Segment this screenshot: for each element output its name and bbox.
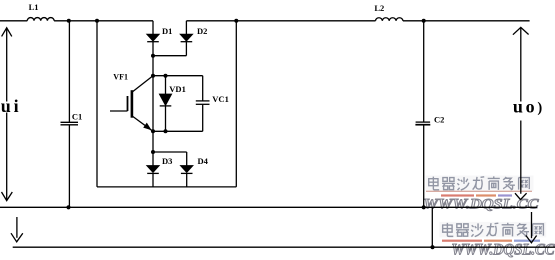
node C2 top [422, 19, 426, 23]
svg-text:C1: C1 [72, 111, 82, 121]
wire bridge box bottom [97, 186, 236, 188]
svg-text:VC1: VC1 [212, 94, 229, 104]
node C1 bottom [66, 205, 70, 209]
wire rail1-rail2 connector [431, 207, 433, 247]
svg-text:C2: C2 [434, 115, 444, 125]
diode D1 [147, 34, 159, 41]
wire L1 to D1 [54, 20, 153, 22]
wire D1-D2 junction link [153, 55, 186, 57]
inductor L1 [27, 18, 54, 21]
wire VD1/VC1 top link [153, 75, 203, 77]
inductor L2 [376, 18, 403, 21]
diode D4 [181, 152, 193, 187]
svg-text:VD1: VD1 [169, 84, 186, 94]
watermark 2 chinese row [439, 222, 546, 238]
node box-left top [95, 19, 99, 23]
diode D3 [147, 166, 159, 187]
svg-text:VF1: VF1 [113, 72, 128, 81]
watermark 1 chinese row [426, 176, 534, 192]
node box-right top [234, 19, 238, 23]
wire D3-D4 top link [153, 151, 187, 153]
wire VD1/VC1 bottom link [153, 130, 203, 132]
watermark 2 red tagline [442, 240, 540, 242]
node rail2 connector [430, 245, 434, 249]
node D3-D4 junction [151, 150, 155, 154]
svg-text:D1: D1 [162, 26, 172, 36]
svg-text:L2: L2 [374, 3, 384, 13]
wire D1 anode drop [152, 21, 154, 35]
node VD1 bottom [164, 129, 168, 133]
wire D2 top rail to L2 [186, 20, 375, 22]
svg-text:WWW.DQSL.CC: WWW.DQSL.CC [452, 241, 555, 258]
svg-text:D3: D3 [162, 156, 172, 166]
watermark 1 red tagline [441, 194, 512, 196]
diode VD1 [160, 76, 172, 132]
arrow bottom-left current [11, 217, 23, 242]
wire bridge box right side [235, 21, 237, 187]
svg-text:L1: L1 [29, 2, 39, 12]
svg-text:D2: D2 [197, 26, 207, 36]
svg-text:uo): uo) [513, 97, 545, 117]
wire bridge box left side [96, 21, 98, 187]
wire center vertical D1 to D3 [152, 42, 154, 166]
node VF1 emitter [151, 129, 155, 133]
capacitor C1 [61, 21, 79, 208]
arrow ui measure [2, 28, 13, 201]
node C2 bottom [422, 205, 426, 209]
wire top left rail [0, 20, 27, 22]
capacitor C2 [415, 21, 430, 208]
wire bottom rail 1 [0, 206, 537, 208]
diode D2 [181, 21, 193, 56]
arrow uo measure [513, 27, 529, 199]
node VF1 collector [151, 74, 155, 78]
node D1-D2 junction [151, 54, 155, 58]
svg-text:ui: ui [1, 96, 22, 116]
wire bottom rail 2 [13, 246, 555, 248]
wire L2 to right end [403, 20, 530, 22]
node C1 top [67, 19, 71, 23]
capacitor VC1 [196, 76, 210, 132]
svg-text:D4: D4 [198, 156, 209, 166]
transistor VF1 [110, 76, 153, 132]
arrow bottom-right current [526, 212, 537, 243]
node VD1 top [164, 74, 168, 78]
